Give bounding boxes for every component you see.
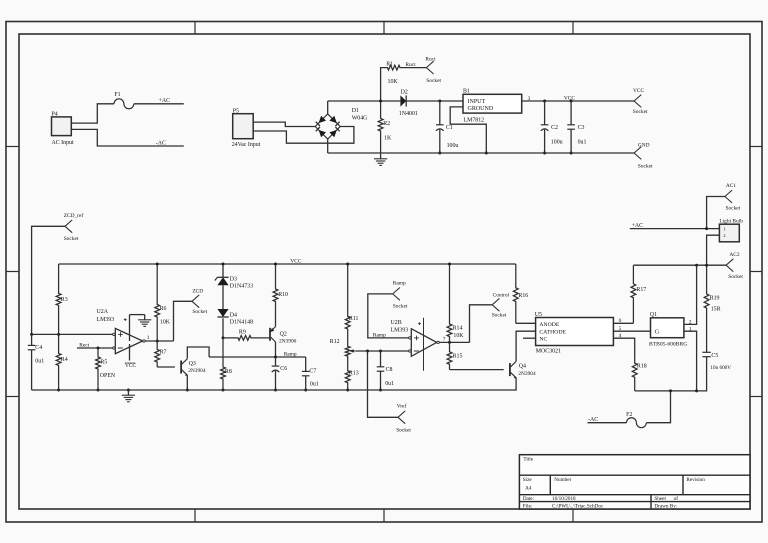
svg-text:0u1: 0u1 [35, 359, 44, 365]
svg-text:2N3906: 2N3906 [279, 339, 297, 345]
svg-text:Title: Title [523, 457, 533, 463]
svg-text:Ramp: Ramp [393, 281, 406, 287]
svg-text:R10: R10 [278, 292, 288, 298]
svg-text:R1: R1 [386, 61, 393, 67]
wire Q2 emitter to R10 [275, 313, 277, 327]
wire +AC [134, 103, 184, 105]
wire R1 riser [381, 68, 385, 101]
capacitor C3 [567, 101, 586, 153]
svg-text:C3: C3 [578, 125, 585, 131]
capacitor C1 [436, 101, 458, 153]
svg-text:R7: R7 [160, 350, 167, 356]
svg-text:4: 4 [619, 333, 622, 339]
svg-text:ZCD: ZCD [192, 288, 203, 294]
diode D4 [217, 309, 253, 338]
svg-text:R13: R13 [349, 370, 359, 376]
connector P5 [232, 108, 261, 147]
resistor R10 [273, 264, 288, 313]
wire Rect stub [77, 347, 113, 349]
svg-text:C2: C2 [551, 125, 558, 131]
svg-text:AC Input: AC Input [52, 140, 74, 146]
wire B1 out pin 3 [522, 96, 634, 102]
wire gate bottom rail [635, 390, 697, 392]
net label -AC (right) [588, 417, 598, 423]
svg-text:Socket: Socket [492, 313, 507, 319]
svg-text:Socket: Socket [726, 206, 741, 212]
svg-text:VCC: VCC [290, 258, 301, 264]
svg-text:R8: R8 [225, 369, 232, 375]
junction C2 top [543, 100, 546, 103]
net label +AC [159, 98, 171, 104]
junction R14/R15 [448, 341, 451, 344]
wire R7 to Q3 base [157, 366, 175, 368]
wire bulb pin2 [707, 235, 720, 265]
svg-text:3: 3 [528, 96, 531, 102]
svg-text:10n 600V: 10n 600V [710, 365, 731, 371]
capacitor C5 [697, 350, 732, 391]
svg-text:CATHODE: CATHODE [539, 330, 566, 336]
svg-text:2N3904: 2N3904 [188, 368, 206, 374]
socket Vref [396, 403, 411, 434]
svg-text:-AC: -AC [156, 140, 166, 146]
wire P5 pin2 [253, 127, 354, 144]
wire +AC to bulb [630, 228, 720, 230]
junction R14 top [448, 263, 451, 266]
title block [519, 455, 750, 510]
svg-text:File:: File: [523, 503, 533, 509]
junction R6 top [156, 263, 159, 266]
resistor R14 [447, 264, 464, 342]
svg-text:LM7812: LM7812 [464, 117, 485, 123]
svg-text:+AC: +AC [632, 223, 644, 229]
svg-text:100u: 100u [447, 143, 459, 149]
svg-text:Drawn By:: Drawn By: [654, 503, 677, 509]
svg-text:24Vac Input: 24Vac Input [232, 142, 261, 148]
svg-text:R2: R2 [383, 121, 390, 127]
svg-text:Socket: Socket [64, 236, 79, 242]
wire Ramp socket to +in [368, 294, 410, 338]
svg-text:R12: R12 [330, 339, 340, 345]
resistor R18 [632, 356, 646, 391]
junction R5 bottom [97, 389, 100, 392]
junction C6/Q2 [274, 356, 277, 359]
wire B1 ground path [450, 107, 486, 153]
svg-text:MOC3021: MOC3021 [536, 349, 561, 355]
wire -AC [588, 422, 627, 424]
svg-text:R17: R17 [636, 287, 646, 293]
svg-text:Socket: Socket [192, 309, 207, 315]
resistor R15 [447, 342, 462, 369]
socket Control [492, 293, 510, 319]
junction R8 bottom [222, 389, 225, 392]
svg-text:R16: R16 [518, 293, 528, 299]
svg-text:R3: R3 [61, 297, 68, 303]
svg-text:OPEN: OPEN [100, 373, 116, 379]
svg-text:ZCD_ref: ZCD_ref [64, 212, 84, 219]
resistor R11 [345, 264, 358, 341]
svg-text:10K: 10K [453, 333, 464, 339]
svg-text:F2: F2 [626, 412, 632, 418]
svg-text:R11: R11 [349, 316, 359, 322]
svg-text:0u1: 0u1 [310, 382, 319, 388]
svg-text:Rect: Rect [79, 342, 89, 348]
resistor R16 (anode feed) [513, 264, 535, 323]
svg-text:R18: R18 [637, 363, 647, 369]
svg-text:Socket: Socket [728, 274, 743, 280]
diode D3 (zener) [215, 264, 253, 309]
svg-text:C1: C1 [446, 125, 453, 131]
svg-text:Socket: Socket [633, 109, 648, 115]
svg-text:D4: D4 [230, 312, 237, 318]
junction R5 top [97, 347, 100, 350]
wire Q1 pin2 [684, 265, 697, 325]
triac Q1 [649, 312, 687, 348]
socket VCC [633, 88, 648, 115]
svg-text:NC: NC [539, 337, 547, 343]
junction snubber bottom [695, 389, 698, 392]
junction R10 top [274, 263, 277, 266]
svg-text:Socket: Socket [638, 163, 653, 169]
svg-text:R14: R14 [453, 325, 463, 331]
junction F2 branch [669, 389, 672, 392]
wire P4 pin2 / -AC [71, 129, 184, 146]
svg-text:1: 1 [147, 335, 150, 341]
svg-text:Size: Size [523, 477, 533, 483]
wire wiper to -in [356, 350, 410, 352]
svg-text:VCC: VCC [125, 363, 136, 369]
svg-text:ANODE: ANODE [539, 322, 559, 328]
wire AC1 [707, 197, 725, 229]
transistor Q3 [181, 359, 206, 376]
diode D2 [399, 90, 463, 117]
svg-text:C6: C6 [280, 366, 287, 372]
wire bridge top to rail [327, 101, 329, 114]
svg-text:Q1: Q1 [650, 312, 657, 318]
net label VCC (top) [564, 95, 575, 101]
svg-text:AC2: AC2 [729, 252, 739, 258]
svg-text:1K: 1K [384, 136, 392, 142]
svg-text:-AC: -AC [588, 417, 598, 423]
wire Q4 collector [516, 331, 536, 361]
fuse F1 [114, 92, 134, 109]
svg-text:0u1: 0u1 [578, 140, 587, 146]
svg-text:Socket: Socket [426, 78, 441, 84]
svg-text:1N4001: 1N4001 [399, 111, 418, 117]
wire pin 4 [613, 333, 634, 356]
junction D3 top [222, 263, 225, 266]
svg-text:Control: Control [493, 293, 510, 299]
wire R1 to socket [403, 62, 426, 68]
wire Control riser [470, 305, 493, 343]
wire P5 pin1 [253, 122, 315, 126]
wire Ramp rail [209, 356, 306, 358]
svg-text:P5: P5 [233, 108, 239, 114]
junction C8 top [379, 350, 382, 353]
svg-text:D2: D2 [401, 90, 408, 96]
svg-text:5: 5 [619, 326, 622, 332]
junction Q1 T2 [695, 264, 698, 267]
transistor Q2 (PNP) [270, 327, 297, 345]
svg-text:16/10/2018: 16/10/2018 [552, 496, 576, 502]
junction C4 top [30, 333, 33, 336]
svg-text:R6: R6 [160, 306, 167, 312]
svg-text:VCC: VCC [564, 95, 575, 101]
net label Rect [79, 342, 89, 348]
svg-text:Socket: Socket [396, 427, 411, 433]
svg-text:Date:: Date: [523, 496, 535, 502]
resistor R8 [221, 338, 232, 390]
svg-text:Revision: Revision [686, 477, 705, 483]
wire +in (U2A) [32, 333, 113, 335]
wire bridge bottom to rail [327, 139, 329, 153]
svg-text:Number: Number [554, 477, 571, 483]
socket ZCD_ref [64, 212, 84, 242]
net label -AC [156, 140, 166, 146]
svg-text:R9: R9 [239, 330, 246, 336]
junction bulb/R19 [705, 264, 708, 267]
svg-text:GND: GND [638, 142, 650, 148]
wire ZCD riser [174, 301, 193, 341]
wire bottom rail (top section) [328, 152, 634, 154]
resistor R13 [345, 366, 358, 390]
svg-text:+AC: +AC [159, 98, 171, 104]
ground at lower rail [122, 389, 135, 402]
capacitor C7 [302, 357, 319, 390]
svg-text:Vref: Vref [397, 403, 407, 410]
svg-text:1: 1 [689, 327, 692, 333]
bridge rectifier D1 [315, 108, 368, 139]
junction R1/R2 [379, 100, 382, 103]
svg-text:R15: R15 [453, 354, 463, 360]
light bulb [719, 218, 743, 241]
svg-text:W04G: W04G [352, 115, 368, 121]
svg-text:GROUND: GROUND [468, 106, 494, 112]
svg-text:C4: C4 [35, 345, 42, 351]
svg-text:P4: P4 [52, 112, 58, 118]
junction C6 bottom [274, 389, 277, 392]
svg-text:0u1: 0u1 [385, 381, 394, 387]
socket AC1 [725, 183, 741, 211]
svg-text:Ramp: Ramp [373, 332, 386, 338]
wire Q3 emitter [186, 375, 188, 390]
junction R4 bottom [57, 389, 60, 392]
ground at U2A [138, 315, 151, 327]
connector P4 [52, 112, 74, 146]
wire top rail (bridge to D2) [328, 100, 401, 102]
svg-text:2: 2 [689, 319, 692, 325]
socket Ramp [393, 281, 408, 310]
net label Ramp (+in) [373, 332, 386, 338]
wire ZCD_ref to +in [32, 226, 65, 334]
svg-text:AC1: AC1 [726, 183, 736, 189]
resistor R19 [704, 265, 720, 350]
junction D4/R9/R8 [222, 336, 225, 339]
stub NC [523, 337, 536, 339]
opto-triac U5 [535, 312, 614, 355]
svg-text:10K: 10K [388, 79, 399, 85]
svg-text:Q4: Q4 [519, 363, 526, 369]
wire Q2 collector [275, 342, 277, 357]
wire pin 6 [613, 318, 633, 324]
svg-text:C:\PWL\..\Triac.SchDoc: C:\PWL\..\Triac.SchDoc [552, 503, 604, 509]
wire AC2 rail [633, 264, 726, 266]
svg-text:R4: R4 [61, 357, 68, 363]
capacitor C8 [377, 351, 394, 390]
svg-text:D1: D1 [352, 108, 359, 114]
junction C1 bottom [438, 152, 441, 155]
socket AC2 [726, 252, 743, 280]
resistor R17 [631, 265, 646, 323]
svg-text:LM393: LM393 [391, 327, 409, 333]
svg-text:2N3904: 2N3904 [518, 371, 536, 377]
svg-text:C8: C8 [386, 367, 393, 373]
wire U2A out [145, 335, 173, 341]
junction C3 top [570, 100, 573, 103]
svg-text:Ruct: Ruct [405, 62, 416, 68]
svg-text:6: 6 [619, 318, 622, 324]
junction R3/R4 [57, 333, 60, 336]
junction C8 bottom [379, 389, 382, 392]
resistor R2 [378, 101, 392, 153]
svg-text:G: G [655, 329, 660, 335]
capacitor C4 [28, 334, 44, 390]
socket GND [634, 142, 653, 169]
potentiometer R12 [330, 339, 356, 366]
op-amp U2A [97, 309, 146, 360]
junction C3 bottom [570, 152, 573, 155]
svg-text:Q3: Q3 [189, 361, 196, 367]
svg-text:D1N4148: D1N4148 [230, 320, 253, 326]
junction R11 top [346, 263, 349, 266]
wire F2 drop [646, 391, 670, 423]
svg-text:C5: C5 [711, 353, 718, 359]
transistor Q4 [510, 361, 536, 378]
junction R13 bottom [346, 389, 349, 392]
wire Vref drop [368, 351, 399, 417]
net label +AC (right) [632, 223, 644, 229]
ground at R2 [374, 154, 387, 166]
capacitor C2 [541, 101, 563, 153]
svg-text:LM393: LM393 [97, 317, 115, 323]
junction +AC node [705, 227, 708, 230]
junction Vref branch [366, 350, 369, 353]
resistor R7 [155, 341, 167, 367]
net label Ramp (rail) [284, 351, 297, 357]
svg-text:VCC: VCC [633, 88, 644, 94]
svg-text:C7: C7 [309, 369, 316, 375]
junction Q3 emitter [186, 389, 189, 392]
wire U2B out pin 7 [439, 337, 469, 343]
junction C2 bottom [543, 152, 546, 155]
wire VCC rail (lower) [59, 263, 516, 265]
svg-text:Ruct: Ruct [425, 56, 436, 62]
resistor R9 [223, 330, 270, 341]
svg-text:of: of [674, 495, 679, 502]
svg-text:R19: R19 [710, 296, 720, 302]
junction C1 top [438, 100, 441, 103]
junction B1 gnd [485, 152, 488, 155]
wire R15 to Q4 base [450, 369, 504, 371]
svg-text:U2B: U2B [391, 320, 402, 326]
svg-text:U5: U5 [535, 312, 542, 318]
socket Ruct [425, 56, 441, 84]
svg-text:B1: B1 [463, 89, 470, 95]
op-amp U2B [391, 318, 440, 371]
svg-text:100u: 100u [551, 140, 563, 146]
junction R6/R7 [156, 340, 159, 343]
svg-text:U2A: U2A [97, 309, 109, 315]
svg-text:F1: F1 [114, 92, 120, 98]
socket ZCD [192, 288, 208, 315]
svg-text:10K: 10K [160, 319, 171, 325]
regulator B1 [463, 89, 522, 124]
resistor R5 [96, 348, 116, 390]
svg-text:D1N4733: D1N4733 [230, 284, 253, 290]
junction C7 bottom [304, 389, 307, 392]
svg-text:Light Bulb: Light Bulb [719, 218, 743, 224]
fuse F2 [626, 412, 646, 428]
resistor R1 [385, 61, 403, 84]
net label VCC (U2A) [125, 363, 137, 369]
resistor R3 [56, 264, 68, 334]
svg-text:15R: 15R [711, 307, 721, 313]
svg-text:BTB05-600BRG: BTB05-600BRG [649, 342, 687, 348]
wire P4 pin1 [71, 104, 114, 123]
svg-text:R5: R5 [100, 359, 107, 365]
svg-text:Ramp: Ramp [284, 351, 297, 357]
resistor R4 [56, 334, 68, 390]
wire Q1 pin1 [684, 327, 697, 391]
svg-text:A4: A4 [525, 486, 532, 492]
wire pin 5 [613, 326, 650, 332]
net label VCC (lower) [290, 258, 301, 264]
capacitor C6 [272, 357, 288, 390]
svg-text:Socket: Socket [393, 304, 408, 310]
svg-text:INPUT: INPUT [468, 99, 486, 105]
svg-text:7: 7 [443, 337, 446, 343]
svg-text:Q2: Q2 [280, 331, 287, 337]
wire Q3 collector [187, 347, 209, 359]
resistor R6 [155, 264, 171, 341]
svg-text:D3: D3 [230, 277, 237, 283]
svg-text:Sheet: Sheet [654, 496, 666, 502]
wire Q4 emitter [32, 378, 516, 390]
